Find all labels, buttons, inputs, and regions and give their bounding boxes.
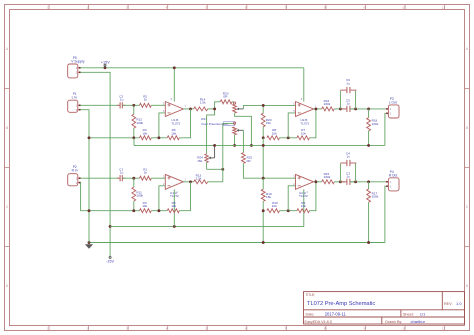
wire U1.B V+ pin8 <box>173 68 175 102</box>
resistor R10 <box>267 201 280 213</box>
wire U2.B output <box>314 108 322 110</box>
ground symbol <box>85 243 93 249</box>
svg-text:+15V: +15V <box>101 61 110 65</box>
wire P2 pin1 to C1 <box>80 177 119 179</box>
node R18 rail junction <box>367 144 370 147</box>
wire R3 to R5 <box>151 210 167 212</box>
wire R22 to U2.A <box>243 163 295 178</box>
wire C5 to P3 <box>350 108 386 110</box>
title block <box>304 292 465 324</box>
wire -15V drop from P5 pin2 <box>80 72 110 252</box>
svg-text:TL072 Pre-Amp Schematic: TL072 Pre-Amp Schematic <box>307 301 375 307</box>
capacitor C5 <box>340 99 356 113</box>
wire U2.B pin6 <box>288 113 295 138</box>
svg-text:Drawn By:: Drawn By: <box>385 320 402 324</box>
connector P5 V Supply <box>68 56 85 78</box>
node -15V rail tap <box>109 225 112 228</box>
svg-text:10: 10 <box>402 6 406 10</box>
wire R1 to U1.A pin3 <box>151 177 165 179</box>
wire C4 loop <box>340 164 355 182</box>
wire C1 to node A2 <box>123 177 140 179</box>
svg-text:TITLE:: TITLE: <box>305 293 315 297</box>
resistor R3 <box>140 201 152 213</box>
svg-text:1.0: 1.0 <box>456 301 462 306</box>
wire R10 to R9 <box>280 210 297 212</box>
wire R20 column <box>262 138 264 178</box>
label R21 Dual Potentiometer <box>201 117 235 126</box>
node tap rail junction <box>250 144 253 147</box>
svg-text:B: B <box>6 126 8 130</box>
node +15V junction <box>104 66 107 69</box>
wire R13 riser <box>223 123 234 181</box>
svg-text:L Out: L Out <box>389 100 397 104</box>
svg-text:2017-09-11: 2017-09-11 <box>325 312 347 317</box>
wire -15V rail <box>110 189 304 226</box>
node R20 rail junction <box>262 144 265 147</box>
node C3 right junction <box>354 180 357 183</box>
svg-text:V Supply: V Supply <box>71 60 85 64</box>
resistor R24 with wiper <box>197 115 214 169</box>
op-amp U2.B <box>293 97 317 125</box>
capacitor C6 <box>340 78 356 93</box>
resistor R19 <box>261 178 272 242</box>
potentiometer R21 gang2 <box>233 122 244 145</box>
svg-text:charlbur: charlbur <box>411 319 426 324</box>
wire R4 to R6 <box>151 137 167 139</box>
wire C6 loop <box>340 91 355 109</box>
resistor R2 <box>140 95 152 108</box>
node R24 wiper rail junction <box>213 144 216 147</box>
op-amp U1.A <box>163 174 187 198</box>
wire R14 node riser <box>215 102 221 109</box>
node R19 ground junction <box>262 241 265 244</box>
wire U1.B output <box>183 108 193 110</box>
resistor R12 <box>132 105 144 138</box>
wire R15 to C3 <box>334 181 345 183</box>
wire U1.A V- pin4 <box>173 189 175 226</box>
wire ground rail <box>89 242 385 244</box>
node R20 top junction <box>262 104 265 107</box>
svg-text:REV:: REV: <box>444 302 452 306</box>
svg-text:1u: 1u <box>346 175 350 179</box>
node U1.A V- junction <box>173 225 176 228</box>
svg-text:Date:: Date: <box>306 313 315 317</box>
svg-text:10k: 10k <box>272 204 277 208</box>
svg-text:L In: L In <box>72 96 78 100</box>
svg-text:1u: 1u <box>346 81 350 85</box>
svg-text:1k: 1k <box>144 98 148 102</box>
svg-text:1.5k: 1.5k <box>196 177 202 181</box>
svg-text:1u: 1u <box>346 102 350 106</box>
wire P1 pin2 ground drop <box>80 110 89 243</box>
wire pot gang1 bottom tap <box>235 113 252 145</box>
power flag -15V <box>106 252 114 263</box>
op-amp U2.A <box>293 174 317 198</box>
node R12-R4 junction <box>132 136 135 139</box>
potentiometer R21 gang1 <box>233 102 244 113</box>
resistor R6 <box>167 128 179 140</box>
power flag +15V <box>101 61 110 68</box>
wire C3 to P4 <box>350 181 386 183</box>
node C5 right junction <box>354 107 357 110</box>
svg-text:R In: R In <box>72 168 78 172</box>
svg-text:B: B <box>466 126 468 130</box>
node U2.A output junction <box>314 180 317 183</box>
wire R14 node jog to R24 <box>207 109 215 115</box>
capacitor C3 <box>340 172 356 185</box>
wire P1 pin1 to C2 <box>80 104 119 106</box>
wire R2 to U1.B pin5 <box>151 104 165 106</box>
connector P2 R In <box>68 165 81 186</box>
svg-text:10k: 10k <box>171 131 176 135</box>
node P4 input junction <box>367 180 370 183</box>
resistor R16 <box>322 99 335 111</box>
resistor R1 <box>140 167 152 180</box>
resistor R20 <box>261 105 271 137</box>
resistor R14 <box>194 97 215 110</box>
resistor R9 <box>297 201 310 213</box>
resistor R11 <box>132 178 144 211</box>
resistor R18 <box>367 109 379 145</box>
svg-text:1.5k: 1.5k <box>200 101 206 105</box>
wire U1.A output <box>183 181 193 183</box>
resistor R13 <box>194 173 223 183</box>
svg-text:TL072: TL072 <box>300 121 309 125</box>
svg-text:15k: 15k <box>266 195 271 199</box>
node U2.A inv junction <box>287 209 290 212</box>
svg-text:Dual Potentiometer_: Dual Potentiometer_ <box>202 122 230 126</box>
wire ch1 ground row <box>89 137 140 139</box>
svg-text:100k: 100k <box>372 195 379 199</box>
svg-text:10k: 10k <box>142 131 147 135</box>
resistor R5 <box>167 201 179 213</box>
svg-text:100k: 100k <box>136 121 143 125</box>
wire R8 to R7 <box>280 137 297 139</box>
svg-text:100k: 100k <box>324 102 331 106</box>
svg-text:10k: 10k <box>272 131 277 135</box>
node R17 ground junction <box>367 241 370 244</box>
capacitor C2 <box>117 95 125 109</box>
svg-text:1u: 1u <box>120 98 124 102</box>
wire +15V rail <box>80 67 303 69</box>
wire P4 pin2 to ground <box>384 186 387 242</box>
svg-text:Sheet:: Sheet: <box>403 313 414 317</box>
wire gang1 wiper to U2.B <box>243 105 295 109</box>
svg-text:15k: 15k <box>266 121 271 125</box>
node U2.B inv junction <box>287 136 290 139</box>
resistor R7 <box>297 128 310 140</box>
node U1.B output junction <box>189 107 192 110</box>
node U2.B output junction <box>314 107 317 110</box>
node U2.A input junction <box>262 177 265 180</box>
svg-text:1u: 1u <box>120 171 124 175</box>
resistor R4 <box>140 128 152 140</box>
node gang2 rail junction <box>233 144 236 147</box>
node ch2 ground row left <box>88 209 91 212</box>
wire U2.A pin2 <box>288 186 295 211</box>
resistor R17 <box>367 182 379 243</box>
wire P2 pin2 drop <box>80 183 89 211</box>
svg-text:R Out: R Out <box>389 173 398 177</box>
svg-text:100k: 100k <box>372 122 379 126</box>
svg-text:100k: 100k <box>324 175 331 179</box>
node ground rail left junction <box>88 241 91 244</box>
wire ch2 ground row <box>89 210 140 212</box>
wire tone ground rail <box>134 138 385 146</box>
svg-text:EasyEDA V4.8.5: EasyEDA V4.8.5 <box>305 320 332 324</box>
node R20 bottom junction <box>262 136 265 139</box>
connector P4 R Out <box>386 170 399 191</box>
wire ch2 feedback riser <box>179 182 190 211</box>
node A2 <box>132 177 135 180</box>
capacitor C1 <box>117 167 125 181</box>
svg-text:1k: 1k <box>144 171 148 175</box>
node ch2 inv junction <box>157 209 160 212</box>
resistor R15 <box>322 172 335 184</box>
svg-text:1u: 1u <box>346 155 350 159</box>
node R19 row junction <box>262 209 265 212</box>
svg-text:10k: 10k <box>301 131 306 135</box>
connector P3 L Out <box>386 97 399 118</box>
resistor R23 <box>220 91 233 103</box>
wire R7 feedback riser <box>310 109 316 138</box>
svg-text:-15V: -15V <box>106 260 114 264</box>
svg-text:TL072: TL072 <box>171 121 180 125</box>
svg-text:10: 10 <box>402 327 406 331</box>
wire U2.B V+ pin8 <box>303 68 305 102</box>
node R11-R3 junction <box>132 209 135 212</box>
wire C2 to node A1 <box>123 104 140 106</box>
svg-text:100k: 100k <box>136 194 143 198</box>
wire R9 feedback riser <box>310 182 316 211</box>
node ch1 ground row left <box>88 136 91 139</box>
node U1.B V+ junction <box>173 66 176 69</box>
node R14 output junction <box>213 107 216 110</box>
wire ch1 feedback riser <box>179 109 190 138</box>
wire U1.B pin6 to feedback <box>159 113 165 138</box>
svg-text:1/1: 1/1 <box>420 312 426 317</box>
node ch1 inv junction <box>157 136 160 139</box>
svg-text:10k: 10k <box>301 204 306 208</box>
wire U2.A output <box>314 181 322 183</box>
svg-text:15k: 15k <box>197 159 202 163</box>
node R24-R13 junction <box>221 168 224 171</box>
resistor R8 <box>267 128 280 140</box>
wire R16 to C5 <box>334 108 345 110</box>
wire P3 pin2 to rail <box>384 113 387 145</box>
resistor R22 <box>242 153 253 164</box>
node C5 left junction <box>339 107 342 110</box>
wire U1.A pin2 to feedback <box>159 186 165 211</box>
op-amp U1.B <box>163 97 187 125</box>
svg-text:TL072: TL072 <box>299 194 308 198</box>
node U1.A output junction <box>189 180 192 183</box>
svg-text:11: 11 <box>442 327 445 331</box>
node A1 <box>132 104 135 107</box>
capacitor C4 <box>340 152 356 167</box>
connector P1 L In <box>68 92 81 112</box>
svg-text:10k: 10k <box>171 204 176 208</box>
svg-text:10k: 10k <box>142 204 147 208</box>
wire gang2 wiper drop <box>242 130 244 152</box>
node C3 left junction <box>339 180 342 183</box>
wire R24 bottom row <box>207 168 223 170</box>
svg-text:11: 11 <box>442 6 445 10</box>
node P3 input junction <box>367 107 370 110</box>
